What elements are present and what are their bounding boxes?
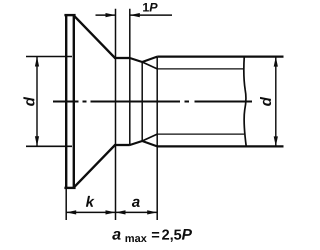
k dimension line [66, 211, 115, 213]
vertical at runout dip [141, 62, 143, 141]
extension line at runout start [129, 9, 131, 146]
extension line below head face [65, 189, 67, 220]
arrowhead a left [116, 210, 126, 214]
thread root line bottom [157, 133, 244, 135]
label a [132, 199, 140, 207]
countersunk cone upper [74, 15, 116, 58]
arrowhead a right [147, 210, 157, 214]
formula 2, [162, 229, 173, 241]
head bottom edge [64, 187, 75, 189]
arrowhead k right [106, 210, 116, 214]
label d right [260, 97, 271, 106]
arrowhead d-right bottom [274, 136, 278, 146]
arrowhead k left [66, 210, 76, 214]
thread root runout diagonal bottom [142, 134, 157, 141]
head face line 1 [65, 14, 67, 189]
formula 5 [174, 230, 181, 240]
countersunk cone lower [74, 145, 116, 188]
formula max subscript [126, 236, 147, 242]
under-head shank surface bottom [114, 144, 130, 146]
arrowhead 1P left [106, 13, 116, 17]
1P dimension line left part [96, 14, 116, 16]
formula a [112, 231, 120, 240]
arrowhead d-right top [274, 57, 278, 67]
label k [86, 196, 95, 207]
d left extension line bottom [26, 145, 72, 147]
thread root runout diagonal top [142, 62, 157, 69]
arrowhead d-left bottom [35, 136, 39, 146]
label 1P [143, 3, 158, 12]
extension line at head-shank plane [115, 9, 117, 220]
under-head shank surface top [114, 57, 130, 59]
1P dimension line right part [130, 14, 172, 16]
thread crest line bottom [157, 145, 283, 147]
head face line 2 [73, 14, 75, 189]
arrowhead d-left top [35, 57, 39, 67]
d left dimension line [36, 57, 38, 147]
formula P [182, 229, 192, 240]
head top edge [64, 14, 75, 16]
thread runout dip bottom [130, 141, 157, 146]
arrowhead 1P right [130, 13, 140, 17]
thread runout dip top [130, 57, 157, 62]
extension line at full thread start [156, 57, 158, 220]
a dimension line [116, 211, 158, 213]
thread crest line top [157, 55, 283, 57]
d right dimension line [275, 57, 277, 147]
label d left [23, 97, 34, 106]
d left extension line top [26, 56, 72, 58]
break line [244, 56, 246, 147]
formula equals sign [152, 232, 159, 237]
thread root line top [157, 68, 244, 70]
centerline [53, 101, 252, 103]
